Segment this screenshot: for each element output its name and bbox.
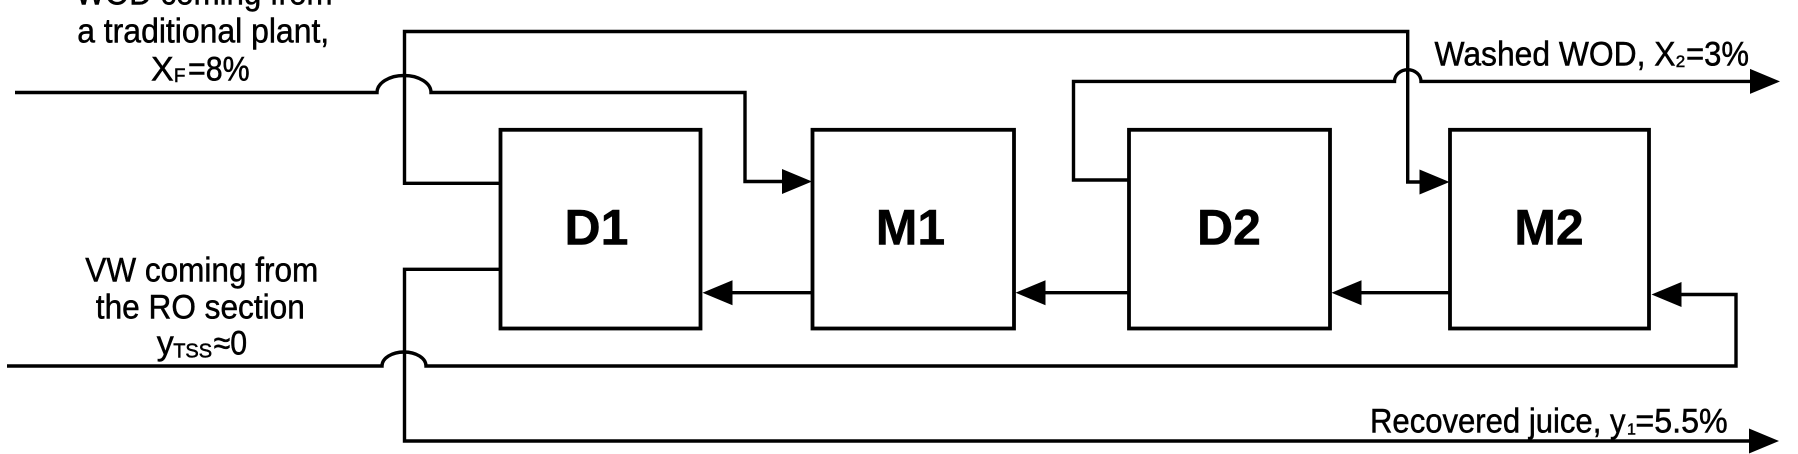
- svg-text:y: y: [157, 325, 174, 363]
- svg-text:D2: D2: [1197, 200, 1261, 256]
- svg-text:=5.5%: =5.5%: [1635, 403, 1727, 441]
- svg-text:a traditional plant,: a traditional plant,: [77, 12, 329, 50]
- svg-text:M2: M2: [1514, 200, 1583, 256]
- svg-text:≈0: ≈0: [214, 325, 248, 363]
- svg-text:=8%: =8%: [188, 51, 250, 89]
- svg-text:M1: M1: [876, 200, 945, 256]
- svg-text:VW coming from: VW coming from: [85, 252, 318, 290]
- svg-text:2: 2: [1676, 52, 1685, 71]
- svg-text:the RO section: the RO section: [96, 289, 305, 327]
- svg-text:Recovered juice, y: Recovered juice, y: [1370, 403, 1626, 441]
- svg-text:=3%: =3%: [1686, 35, 1749, 73]
- svg-text:F: F: [174, 66, 186, 87]
- svg-text:Washed WOD, X: Washed WOD, X: [1435, 35, 1676, 73]
- svg-text:TSS: TSS: [173, 341, 212, 363]
- svg-text:X: X: [151, 51, 174, 89]
- svg-text:D1: D1: [565, 200, 629, 256]
- svg-text:WOD coming from: WOD coming from: [76, 0, 333, 13]
